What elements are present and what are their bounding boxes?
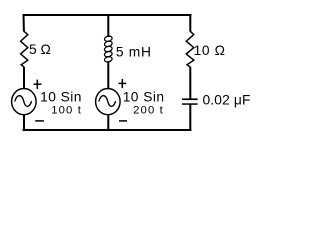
svg-text:0.02 μF: 0.02 μF [203, 92, 251, 107]
AC source 10 Sin 100t [12, 89, 36, 115]
svg-text:200 t: 200 t [133, 104, 164, 116]
svg-text:5 mH: 5 mH [116, 44, 152, 59]
wire right branch upper [189, 14, 191, 32]
AC source 10 Sin 200t [96, 89, 121, 115]
svg-text:100 t: 100 t [51, 104, 82, 116]
svg-text:5 Ω: 5 Ω [29, 42, 51, 57]
wire left branch middle [23, 67, 25, 89]
minus polarity of middle source [119, 120, 127, 122]
minus polarity of left source [35, 120, 44, 122]
wire left branch lower [23, 114, 25, 131]
plus polarity of middle source [121, 79, 123, 88]
svg-text:10 Sin: 10 Sin [123, 90, 165, 105]
inductor 5 mH [108, 35, 111, 37]
resistor 10 ohm [186, 31, 194, 67]
svg-text:10 Sin: 10 Sin [40, 90, 82, 105]
sine wave of middle source [99, 96, 116, 107]
svg-text:10 Ω: 10 Ω [194, 43, 226, 58]
resistor 5 ohm [21, 31, 28, 67]
plus polarity of left source [36, 80, 38, 89]
sine wave of left source [15, 96, 32, 107]
wire right branch lower [189, 104, 191, 131]
capacitor 0.02 uF bottom plate [182, 103, 198, 105]
wire middle branch upper [107, 14, 109, 37]
capacitor 0.02 uF top plate [182, 98, 198, 100]
wire middle branch middle [107, 61, 109, 89]
wire bottom rail [23, 129, 192, 131]
wire top rail [23, 14, 192, 16]
wire right branch middle [189, 67, 191, 99]
wire left branch upper [23, 14, 25, 32]
wire middle branch lower [107, 114, 109, 131]
